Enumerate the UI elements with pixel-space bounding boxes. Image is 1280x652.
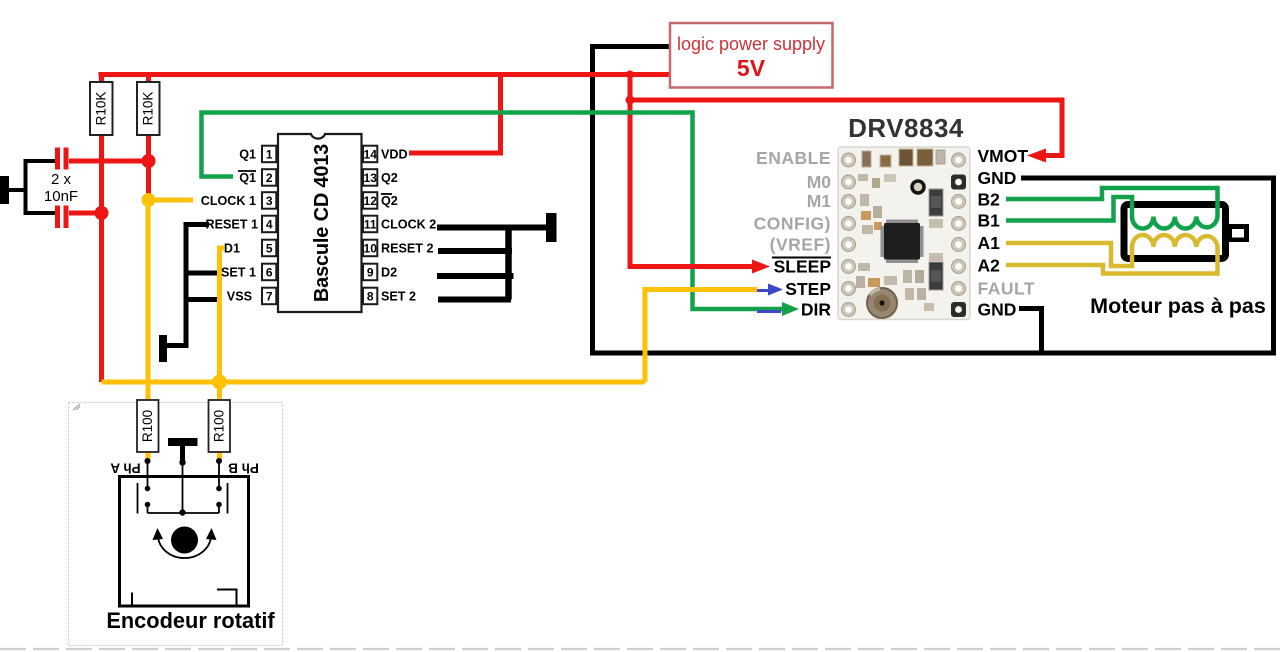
svg-text:R100: R100 bbox=[212, 410, 227, 442]
svg-text:A1: A1 bbox=[978, 233, 1001, 253]
svg-text:D1: D1 bbox=[224, 242, 240, 256]
svg-text:11: 11 bbox=[364, 218, 377, 232]
svg-text:13: 13 bbox=[364, 171, 378, 185]
svg-text:CONFIG): CONFIG) bbox=[754, 214, 831, 234]
svg-text:Q1: Q1 bbox=[239, 148, 256, 162]
svg-text:GND: GND bbox=[978, 300, 1017, 320]
svg-text:GND: GND bbox=[978, 168, 1017, 188]
svg-text:R100: R100 bbox=[140, 410, 155, 442]
svg-text:SET 1: SET 1 bbox=[221, 266, 256, 280]
svg-text:M1: M1 bbox=[807, 191, 832, 211]
svg-text:4: 4 bbox=[266, 218, 273, 232]
svg-text:Q1: Q1 bbox=[239, 171, 256, 185]
svg-text:12: 12 bbox=[364, 194, 378, 208]
svg-text:(VREF): (VREF) bbox=[770, 235, 831, 255]
svg-text:7: 7 bbox=[266, 290, 273, 304]
svg-text:2: 2 bbox=[266, 171, 273, 185]
svg-text:DRV8834: DRV8834 bbox=[848, 113, 964, 143]
svg-text:CLOCK 1: CLOCK 1 bbox=[201, 194, 256, 208]
svg-text:1: 1 bbox=[266, 148, 273, 162]
svg-text:5V: 5V bbox=[737, 55, 766, 81]
svg-text:SLEEP: SLEEP bbox=[774, 257, 832, 277]
svg-text:B2: B2 bbox=[978, 190, 1001, 210]
svg-text:Q2: Q2 bbox=[381, 194, 398, 208]
svg-text:DIR: DIR bbox=[801, 300, 832, 320]
svg-text:10: 10 bbox=[364, 242, 378, 256]
svg-text:Bascule CD 4013: Bascule CD 4013 bbox=[311, 144, 333, 302]
svg-text:6: 6 bbox=[266, 266, 273, 280]
svg-text:2 x: 2 x bbox=[51, 171, 72, 188]
svg-text:14: 14 bbox=[364, 148, 378, 162]
svg-text:3: 3 bbox=[266, 194, 273, 208]
svg-text:9: 9 bbox=[367, 266, 374, 280]
svg-text:VMOT: VMOT bbox=[978, 146, 1029, 166]
svg-text:D2: D2 bbox=[381, 266, 397, 280]
svg-text:8: 8 bbox=[367, 290, 374, 304]
svg-text:A2: A2 bbox=[978, 256, 1001, 276]
svg-text:VDD: VDD bbox=[381, 148, 408, 162]
svg-text:M0: M0 bbox=[807, 172, 832, 192]
svg-text:RESET 1: RESET 1 bbox=[206, 218, 259, 232]
svg-text:VSS: VSS bbox=[227, 290, 252, 304]
svg-text:5: 5 bbox=[266, 242, 273, 256]
svg-text:10nF: 10nF bbox=[44, 188, 78, 205]
svg-text:Ph A: Ph A bbox=[110, 461, 141, 476]
svg-text:R10K: R10K bbox=[94, 92, 109, 126]
svg-text:Q2: Q2 bbox=[381, 171, 398, 185]
svg-text:B1: B1 bbox=[978, 211, 1001, 231]
svg-text:ENABLE: ENABLE bbox=[756, 148, 831, 168]
svg-text:Encodeur rotatif: Encodeur rotatif bbox=[106, 608, 275, 633]
svg-text:logic power supply: logic power supply bbox=[677, 34, 825, 54]
svg-text:FAULT: FAULT bbox=[978, 279, 1036, 299]
svg-text:R10K: R10K bbox=[141, 92, 156, 126]
svg-text:CLOCK 2: CLOCK 2 bbox=[381, 218, 436, 232]
svg-text:STEP: STEP bbox=[785, 279, 831, 299]
svg-text:Ph B: Ph B bbox=[228, 461, 259, 476]
svg-text:RESET 2: RESET 2 bbox=[381, 242, 434, 256]
svg-text:Moteur pas à pas: Moteur pas à pas bbox=[1090, 294, 1266, 318]
svg-text:SET 2: SET 2 bbox=[381, 290, 416, 304]
